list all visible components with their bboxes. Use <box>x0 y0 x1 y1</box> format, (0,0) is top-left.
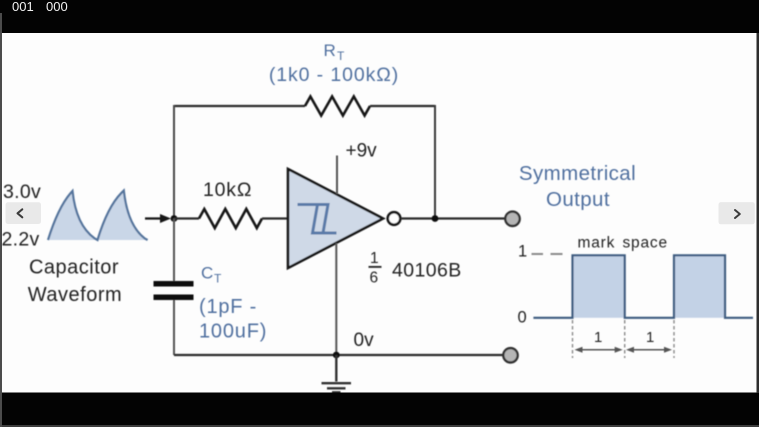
label RT <box>324 41 346 63</box>
svg-text:T: T <box>214 272 222 286</box>
wire: input to R1 <box>174 217 199 219</box>
bottom black bar <box>0 393 759 427</box>
node: input junction <box>171 215 178 222</box>
wire: R1 to inverter input <box>262 217 288 219</box>
dimension arrow mark width <box>575 347 623 353</box>
svg-text:0v: 0v <box>354 330 375 351</box>
label CT <box>201 264 222 286</box>
svg-text:6: 6 <box>370 270 379 287</box>
svg-text:40106B: 40106B <box>392 260 462 282</box>
svg-text:Capacitor: Capacitor <box>29 257 119 279</box>
dashes at 1 level <box>532 253 563 255</box>
dashed dimension ticks <box>573 320 675 358</box>
terminal: 0v <box>503 348 517 362</box>
label Capacitor <box>29 257 119 279</box>
resistor RT zigzag <box>305 97 370 116</box>
right border line <box>757 33 759 393</box>
label 0v <box>354 330 375 351</box>
hysteresis symbol inside U1 <box>298 205 337 234</box>
arrow: input signal <box>145 214 171 223</box>
svg-text:R: R <box>324 41 336 60</box>
svg-text:space: space <box>623 235 668 252</box>
resistor R1 10k zigzag <box>199 209 262 228</box>
label 1/6 fraction <box>369 250 382 287</box>
wire: capacitor bottom lead <box>173 300 175 355</box>
wire: feedback loop left vertical <box>173 105 175 218</box>
label Waveform <box>28 284 122 306</box>
left border line <box>0 13 2 427</box>
svg-text:0: 0 <box>518 309 527 327</box>
label 10kOhm <box>203 179 252 201</box>
label +9v <box>346 141 378 162</box>
label 1 axis level <box>518 243 527 261</box>
svg-text:Output: Output <box>546 188 610 211</box>
node: output junction <box>432 215 439 222</box>
dimension arrow space width <box>626 347 672 353</box>
svg-text:Symmetrical: Symmetrical <box>519 162 636 185</box>
label 1 space width <box>646 329 654 346</box>
svg-text:C: C <box>201 264 213 283</box>
svg-text:+9v: +9v <box>346 141 378 162</box>
wire: feedback loop right vertical <box>434 105 436 219</box>
svg-text:1: 1 <box>594 329 602 346</box>
ground symbol <box>322 355 352 392</box>
next button <box>719 202 755 224</box>
label RT value (1k0 - 100kOhm) <box>269 64 399 86</box>
label 0 axis level <box>518 309 527 327</box>
svg-text:mark: mark <box>578 235 616 252</box>
inverter output bubble <box>388 212 401 225</box>
wire: feedback loop top (left segment) <box>174 105 305 107</box>
svg-text:2.2v: 2.2v <box>2 229 40 251</box>
svg-text:100uF): 100uF) <box>199 321 267 343</box>
label Output <box>546 188 610 211</box>
capacitor CT plates <box>154 281 194 300</box>
label 1 mark width <box>594 329 602 346</box>
label CT value line 1 <box>199 296 257 318</box>
svg-text:1: 1 <box>370 250 379 267</box>
svg-text:Waveform: Waveform <box>28 284 122 306</box>
wire: output <box>401 217 506 219</box>
label 3.0v <box>3 181 41 203</box>
wire: feedback loop top (right segment) <box>370 105 435 107</box>
node: 0v junction <box>333 352 340 359</box>
top black bar <box>0 0 759 33</box>
frame counter 001 000 <box>12 0 68 14</box>
label Symmetrical <box>519 162 636 185</box>
svg-text:000: 000 <box>46 0 68 14</box>
waveform: capacitor sawtooth <box>48 191 148 241</box>
label 2.2v <box>2 229 40 251</box>
svg-text:(1pF -: (1pF - <box>199 296 257 318</box>
svg-text:3.0v: 3.0v <box>3 181 41 203</box>
prev button <box>6 202 42 224</box>
label mark <box>578 235 616 252</box>
svg-text:001: 001 <box>12 0 34 14</box>
waveform: output square wave <box>533 255 753 317</box>
svg-text:1: 1 <box>646 329 654 346</box>
wire: 0v bottom rail <box>174 354 503 356</box>
svg-text:T: T <box>337 49 345 63</box>
label CT value line 2 <box>199 321 267 343</box>
label 40106B <box>392 260 462 282</box>
svg-text:1: 1 <box>518 243 527 261</box>
label space <box>623 235 668 252</box>
terminal: output <box>505 212 519 226</box>
wire: +9v supply <box>336 156 338 195</box>
wire: 0v from inverter <box>335 243 337 355</box>
wire: capacitor top lead <box>173 219 175 282</box>
inverter U1 triangle <box>288 169 383 268</box>
svg-text:10kΩ: 10kΩ <box>203 179 252 201</box>
svg-text:(1k0 - 100kΩ): (1k0 - 100kΩ) <box>269 64 399 86</box>
